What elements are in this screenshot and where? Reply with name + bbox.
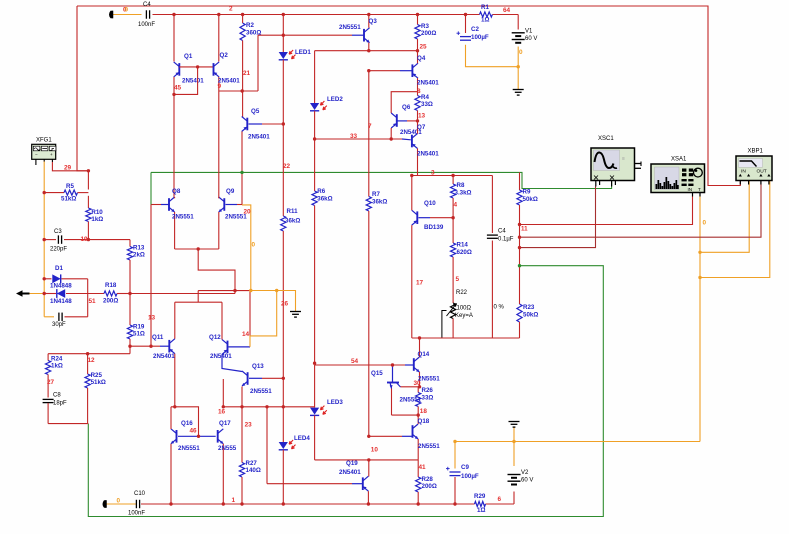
capacitor C3 220pF (44, 239, 56, 241)
svg-text:6: 6 (498, 496, 502, 503)
junction (418.2,504) (417, 502, 420, 505)
junction orange (518.2,66.7) (517, 65, 520, 68)
diode D2 1N4148 (57, 289, 65, 298)
junction (368.4,504) (367, 502, 370, 505)
svg-text:C4: C4 (143, 2, 151, 8)
svg-text:18pF: 18pF (53, 401, 67, 407)
svg-text:Q9: Q9 (226, 188, 235, 195)
wire orange V1 ground net (466, 45, 519, 67)
svg-text:IN: IN (688, 187, 693, 192)
wire maroon scope A line (520, 187, 596, 248)
LED1 (282, 15, 284, 53)
svg-text:LED4: LED4 (294, 435, 310, 442)
resistor R4 33 (417, 92, 419, 96)
resistor R13 2k (127, 247, 132, 261)
junction (174,14.5) (172, 13, 175, 16)
svg-text:IN: IN (741, 169, 746, 175)
svg-text:R14: R14 (457, 242, 469, 249)
input terminal arrow (16, 290, 30, 296)
svg-text:R27: R27 (246, 460, 258, 467)
svg-text:C9: C9 (461, 464, 469, 471)
svg-text:Q11: Q11 (152, 334, 164, 341)
svg-text:R1: R1 (481, 4, 489, 11)
svg-text:220pF: 220pF (50, 247, 67, 253)
svg-text:0: 0 (519, 49, 523, 56)
svg-text:27: 27 (47, 379, 55, 386)
svg-text:7: 7 (368, 123, 372, 130)
junction (130,346.2) (128, 345, 131, 348)
svg-text:2N5551: 2N5551 (172, 213, 194, 220)
svg-text:Q19: Q19 (346, 460, 358, 467)
svg-text:Q10: Q10 (424, 200, 436, 207)
wire net 25 row to LED2 (315, 50, 418, 52)
capacitor C4 100nF top (145, 10, 147, 18)
ground V1 (513, 89, 524, 91)
svg-text:C2: C2 (471, 26, 479, 33)
svg-text:0.1µF: 0.1µF (498, 236, 514, 242)
svg-text:51Ω: 51Ω (133, 330, 145, 337)
svg-text:1kΩ: 1kΩ (91, 216, 103, 223)
junction (368.8,14.5) (367, 13, 370, 16)
svg-text:1: 1 (232, 497, 236, 504)
wire Q15 collector to net 30 (401, 386, 420, 388)
resistor R2 360 (242, 15, 244, 24)
svg-text:64: 64 (503, 7, 511, 14)
svg-text:46: 46 (190, 428, 198, 435)
svg-text:Q16: Q16 (181, 420, 193, 427)
junction (519.5,224.5) (518, 223, 521, 226)
junction (198.2,249) (197, 247, 200, 250)
svg-text:R6: R6 (317, 188, 325, 195)
junction (267,406.8) (265, 405, 268, 408)
svg-text:18: 18 (420, 408, 428, 415)
svg-text:R23: R23 (523, 304, 535, 311)
junction (418.2,415.1) (417, 413, 420, 416)
wire Q9 base to orange (226, 204, 238, 206)
svg-text:Q12: Q12 (209, 334, 221, 341)
svg-text:1Ω: 1Ω (477, 507, 485, 514)
svg-text:19: 19 (81, 236, 89, 243)
junction (44.2,278.8) (43, 277, 46, 280)
wire net 21 row (219, 90, 258, 92)
wire XFG1 plus pin to node 29 (52, 162, 88, 171)
wire pot bottom row (412, 337, 520, 339)
transistor Q18 2N5551 (412, 425, 414, 438)
svg-text:1Ω: 1Ω (481, 17, 489, 24)
svg-text:0: 0 (703, 220, 707, 227)
svg-text:Q17: Q17 (219, 420, 231, 427)
wire tail of Q8 Q9 (175, 248, 219, 250)
input terminal symbol bottom (103, 500, 107, 508)
LED2 (314, 51, 316, 103)
svg-text:LED1: LED1 (295, 49, 311, 56)
junction (151,346.2) (149, 345, 152, 348)
junction orange (514,441.5) (512, 440, 515, 443)
wire Q12 emitter slant to Q13 (222, 354, 242, 371)
junction (314.6,363.2) (313, 362, 316, 365)
wire Q16 Q17 base bus (178, 435, 216, 437)
svg-text:36kΩ: 36kΩ (317, 196, 332, 203)
svg-text:50kΩ: 50kΩ (523, 312, 538, 319)
resistor R28 200 (417, 460, 419, 477)
svg-text:100µF: 100µF (461, 473, 479, 480)
diode D1 1N4148 (44, 278, 51, 280)
svg-text:Q8: Q8 (172, 188, 181, 195)
wire orange top supply decouple (113, 14, 142, 16)
junction (519.5,237.2) (518, 236, 521, 239)
wire green feedback lower (88, 266, 603, 517)
wire node29 column down through R5 R10 (87, 171, 89, 190)
svg-text:R7: R7 (372, 191, 380, 198)
resistor R9 50k (519, 172, 521, 190)
junction (197.6,66.9) (196, 65, 199, 68)
resistor R1 1ohm (480, 12, 493, 17)
svg-text:9: 9 (218, 83, 222, 90)
svg-text:100µF: 100µF (471, 34, 489, 41)
svg-text:51kΩ: 51kΩ (91, 379, 106, 386)
transistor Q17 2N5551 (217, 430, 219, 443)
svg-text:2N5401: 2N5401 (417, 80, 439, 87)
wire Q12 base lead (229, 346, 251, 348)
svg-text:R13: R13 (133, 244, 145, 251)
wire net 51 to tail (130, 293, 235, 295)
svg-text:V1: V1 (525, 29, 533, 35)
wire Q6 base line net 13 (397, 120, 407, 122)
wire orange XFG1 common vertical (43, 161, 45, 317)
junction (368.8,70.7) (367, 69, 370, 72)
svg-text:−: − (35, 152, 38, 157)
capacitor C2 100uF (465, 15, 467, 34)
resistor R27 140 (239, 463, 244, 478)
svg-text:OUT: OUT (757, 169, 767, 175)
input terminal symbol top (109, 11, 113, 19)
junction (283.3,35.2) (282, 34, 285, 37)
svg-text:25: 25 (420, 44, 428, 51)
svg-text:XBP1: XBP1 (748, 149, 764, 155)
wire net 54 row (315, 364, 405, 366)
bode plotter XBP1 (736, 156, 772, 181)
junction (368.8,436.3) (367, 435, 370, 438)
svg-text:100Ω: 100Ω (457, 306, 472, 312)
svg-text:R26: R26 (422, 387, 434, 394)
svg-text:Q7: Q7 (417, 124, 426, 131)
svg-text:23: 23 (245, 422, 253, 429)
junction (198.5,436.3) (197, 435, 200, 438)
svg-text:2N5401: 2N5401 (417, 151, 439, 158)
resistor R14 620 (452, 218, 454, 243)
wire net 18 row (392, 414, 419, 416)
junction (465.5,14.5) (464, 13, 467, 16)
svg-text:200Ω: 200Ω (103, 298, 118, 305)
oscilloscope XSC1 (591, 148, 635, 181)
svg-text:13: 13 (418, 113, 426, 120)
svg-text:33Ω: 33Ω (422, 394, 434, 401)
resistor R5 51k horizontal (44, 192, 64, 194)
junction (242.2,91) (241, 89, 244, 92)
svg-text:Q1: Q1 (184, 53, 193, 60)
wire bottom rail net 1 (141, 503, 475, 505)
junction (223.3,406.8) (222, 405, 225, 408)
svg-text:4: 4 (454, 202, 458, 209)
svg-text:C3: C3 (54, 229, 62, 235)
junction (283.3,124) (282, 122, 285, 125)
wire Q3 base line (258, 34, 352, 36)
svg-text:2N5551: 2N5551 (178, 445, 200, 452)
svg-text:3: 3 (431, 170, 435, 177)
junction (171,504) (169, 502, 172, 505)
svg-text:R25: R25 (91, 372, 103, 379)
svg-text:≡: ≡ (622, 156, 625, 162)
resistor R19 51 (129, 294, 131, 326)
junction (174,94.4) (172, 93, 175, 96)
wire orange C5 row corner (44, 316, 54, 318)
svg-text:2N5401: 2N5401 (339, 469, 361, 476)
junction (283.3,378.3) (282, 377, 285, 380)
ground net 26 (290, 311, 301, 313)
wire orange bottom decouple (107, 503, 137, 505)
junction (242,406.8) (240, 405, 243, 408)
junction (283.3,504) (282, 502, 285, 505)
wire LED4 hang line (282, 407, 284, 442)
junction (283.3,14.5) (282, 13, 285, 16)
junction green (519.5,265.7) (518, 264, 521, 267)
transistor Q9 2N5551 (223, 198, 225, 211)
svg-text:T: T (698, 187, 701, 192)
wire green scope probe upper (151, 172, 612, 188)
wire net 33 row (315, 138, 402, 140)
svg-text:+: + (50, 152, 53, 157)
resistor R26 33 (417, 387, 419, 393)
svg-text:1kΩ: 1kΩ (51, 362, 63, 369)
svg-text:0 %: 0 % (494, 305, 505, 311)
junction (88.4,239.6) (87, 238, 90, 241)
svg-text:XSC1: XSC1 (598, 136, 614, 142)
svg-text:1N4848: 1N4848 (50, 283, 72, 290)
junction (419.5,386.8) (418, 385, 421, 388)
svg-text:R22: R22 (456, 290, 468, 296)
LED4 (279, 442, 288, 449)
function generator XFG1 (32, 144, 56, 159)
svg-text:Q4: Q4 (417, 55, 426, 62)
svg-text:Q18: Q18 (418, 418, 430, 425)
junction (391.2,139) (390, 137, 393, 140)
transistor Q2 2N5401 (218, 15, 220, 62)
svg-text:60 V: 60 V (521, 478, 533, 484)
svg-text:33Ω: 33Ω (421, 101, 433, 108)
junction (368.8,459.9) (367, 458, 370, 461)
svg-text:XSA1: XSA1 (671, 157, 687, 163)
wire maroon XBP1 OUT line (520, 181, 762, 237)
junction (314.6,139) (313, 137, 316, 140)
resistor R11 36k (282, 215, 284, 216)
wire V+ rail net 2 (153, 14, 480, 16)
svg-text:Key=A: Key=A (455, 313, 473, 319)
battery V2 60V (508, 474, 521, 476)
svg-text:D1: D1 (55, 265, 63, 272)
capacitor C10 100nF (135, 500, 137, 508)
transistor Q15 2N5551 rotated (392, 365, 394, 382)
svg-text:10: 10 (371, 447, 379, 454)
resistor R25 51k (87, 354, 89, 374)
LED3 (314, 365, 316, 408)
resistor R3 200 (417, 15, 419, 25)
wire green corner to Q8 base (150, 172, 152, 204)
svg-text:R18: R18 (105, 282, 117, 289)
svg-text:200Ω: 200Ω (422, 483, 437, 490)
junction (453.1,217.7) (451, 216, 454, 219)
wire net 16 column (222, 379, 224, 407)
svg-text:R8: R8 (457, 182, 465, 189)
wire Q13 emitter to R27 column net 23 (241, 387, 243, 463)
wire Q10 base line net 4 (419, 217, 431, 219)
ground V2 above (509, 421, 520, 423)
svg-text:Q5: Q5 (251, 108, 260, 115)
svg-text:11: 11 (521, 226, 528, 233)
junction (419.5,338) (418, 336, 421, 339)
transistor Q5 2N5401 (246, 118, 248, 131)
junction (519.5,247.6) (518, 246, 521, 249)
wire Q13 base to LED column (249, 377, 262, 379)
junction orange (455,441.5) (453, 440, 456, 443)
junction (88.4,170.8) (87, 169, 90, 172)
junction (174.8,406.8) (173, 405, 176, 408)
capacitor C8 18pF (43, 398, 54, 400)
svg-text:41: 41 (419, 464, 427, 471)
svg-text:V2: V2 (521, 470, 529, 476)
wire mirror collector bus Q11 Q12 (175, 301, 222, 303)
wire outer border left down to node 29 (77, 6, 88, 171)
junction (44.2,239.6) (43, 238, 46, 241)
svg-text:17: 17 (416, 280, 424, 287)
wire Q1 base bus (179, 66, 213, 68)
capacitor C4b 0.1uF (491, 176, 493, 234)
wire net 8 jog (391, 92, 417, 113)
wire red XSA1 IN line net 11 (520, 197, 693, 225)
junction green (242,172.4) (240, 171, 243, 174)
junction (87.6,353.7) (86, 352, 89, 355)
svg-text:R29: R29 (474, 493, 486, 500)
resistor R23 50k (517, 304, 522, 322)
junction (218.8,14.5) (217, 13, 220, 16)
svg-text:Q2: Q2 (220, 52, 229, 59)
svg-text:R10: R10 (91, 209, 103, 216)
wire jog to Q13 collector column (198, 290, 250, 292)
transistor Q3 2N5551 (363, 29, 365, 42)
svg-text:29: 29 (64, 165, 72, 172)
wire net 12 line (48, 353, 130, 355)
svg-text:30pF: 30pF (52, 322, 66, 328)
svg-text:8: 8 (417, 88, 421, 95)
resistor R8 3.3k (452, 176, 454, 185)
svg-text:Q14: Q14 (418, 351, 430, 358)
svg-text:Q6: Q6 (402, 104, 411, 111)
wire orange XSA1-T down and to XBP1 (699, 197, 701, 442)
svg-text:2N5551: 2N5551 (400, 397, 422, 404)
wire stub x258 (257, 35, 259, 91)
svg-text:Q13: Q13 (252, 363, 264, 370)
svg-text:R2: R2 (246, 22, 254, 29)
junction (411.8,175.5) (410, 174, 413, 177)
svg-text:60 V: 60 V (525, 36, 537, 42)
transistor Q10 BD139 (416, 211, 418, 224)
junction orange (700,277.5) (698, 276, 701, 279)
svg-text:22: 22 (283, 163, 291, 170)
svg-text:620Ω: 620Ω (457, 249, 472, 256)
svg-text:36kΩ: 36kΩ (285, 218, 300, 225)
wire outer border top/right to XBP1 (77, 6, 740, 186)
svg-text:5: 5 (456, 276, 460, 283)
svg-text:C8: C8 (53, 393, 61, 399)
junction (242.6,14.5) (241, 13, 244, 16)
svg-text:R3: R3 (421, 23, 429, 30)
svg-text:51kΩ: 51kΩ (61, 196, 76, 203)
svg-text:2N5401: 2N5401 (182, 77, 204, 84)
wire orange net 0 from Q9 base (242, 205, 251, 291)
svg-text:2N5551: 2N5551 (250, 388, 272, 395)
junction orange (700,252.3) (698, 251, 701, 254)
junction (417.5,50.7) (416, 49, 419, 52)
svg-text:C4: C4 (498, 229, 506, 235)
wire output row net 3 (412, 175, 493, 177)
svg-text:140Ω: 140Ω (246, 467, 261, 474)
wire net 19 to R13 (88, 239, 130, 241)
junction (130,293.5) (128, 292, 131, 295)
svg-text:33: 33 (350, 133, 358, 140)
transistor Q16 2N5551 (176, 430, 178, 443)
wire Q5 base to LED column (249, 123, 263, 125)
svg-text:12: 12 (88, 357, 96, 364)
wire Q13 collector column (249, 291, 251, 336)
svg-text:100nF: 100nF (128, 511, 145, 517)
svg-text:14: 14 (242, 331, 250, 338)
svg-text:45: 45 (174, 85, 182, 92)
transistor Q19 2N5401 (362, 477, 364, 490)
svg-text:R19: R19 (133, 323, 145, 330)
svg-text:R24: R24 (51, 355, 63, 362)
svg-text:2N5551: 2N5551 (418, 443, 440, 450)
svg-text:30: 30 (414, 380, 422, 387)
junction (392.5,365) (391, 363, 394, 366)
wire Q11 base line (130, 345, 160, 347)
wire orange bottom ground bus (455, 441, 700, 443)
junction (368.8,50.7) (367, 49, 370, 52)
svg-text:R28: R28 (422, 476, 434, 483)
transistor Q8 2N5551 (168, 198, 170, 211)
junction (223.3,504) (222, 502, 225, 505)
resistor R24 1k (47, 354, 49, 361)
transistor Q6 2N5401 (396, 114, 398, 127)
svg-text:BD139: BD139 (424, 224, 444, 231)
junction (283.3,406.8) (282, 405, 285, 408)
resistor R7 36k (368, 71, 370, 197)
svg-text:2N555: 2N555 (218, 445, 237, 452)
junction (44.2,293.5) (43, 292, 46, 295)
wire Q6 emitter to 33 row (390, 128, 392, 139)
junction (417.5,14.5) (416, 13, 419, 16)
transistor Q13 2N5551 (247, 372, 249, 385)
svg-text:2N5551: 2N5551 (418, 375, 440, 382)
svg-text:100nF: 100nF (138, 22, 155, 28)
junction orange (276.7,290.5) (275, 289, 278, 292)
transistor Q12 2N5401 (227, 341, 229, 354)
svg-text:16: 16 (218, 409, 226, 416)
resistor R6 36k (314, 139, 316, 191)
junction (453.1,175.5) (451, 174, 454, 177)
wire Q19 base line (267, 483, 352, 485)
wire Q4 base line (369, 70, 400, 72)
junction (417.5,120.9) (416, 119, 419, 122)
svg-text:2N5551: 2N5551 (339, 24, 361, 31)
